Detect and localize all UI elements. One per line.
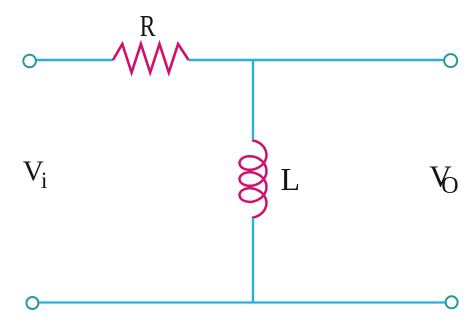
terminal bottom-right	[446, 296, 458, 308]
wire vertical lower	[252, 218, 254, 302]
svg-text:R: R	[140, 8, 156, 43]
inductor L	[240, 141, 267, 218]
svg-text:L: L	[281, 161, 301, 197]
wire top-left horizontal	[37, 59, 114, 61]
wire bottom horizontal	[39, 301, 445, 303]
resistor R	[113, 44, 189, 73]
wire top-right horizontal	[189, 59, 444, 61]
svg-text:O: O	[441, 173, 458, 199]
terminal top-right	[444, 54, 457, 67]
terminal bottom-left	[26, 297, 38, 309]
wire vertical upper	[252, 60, 254, 139]
svg-text:i: i	[41, 168, 47, 193]
terminal top-left	[23, 55, 36, 68]
